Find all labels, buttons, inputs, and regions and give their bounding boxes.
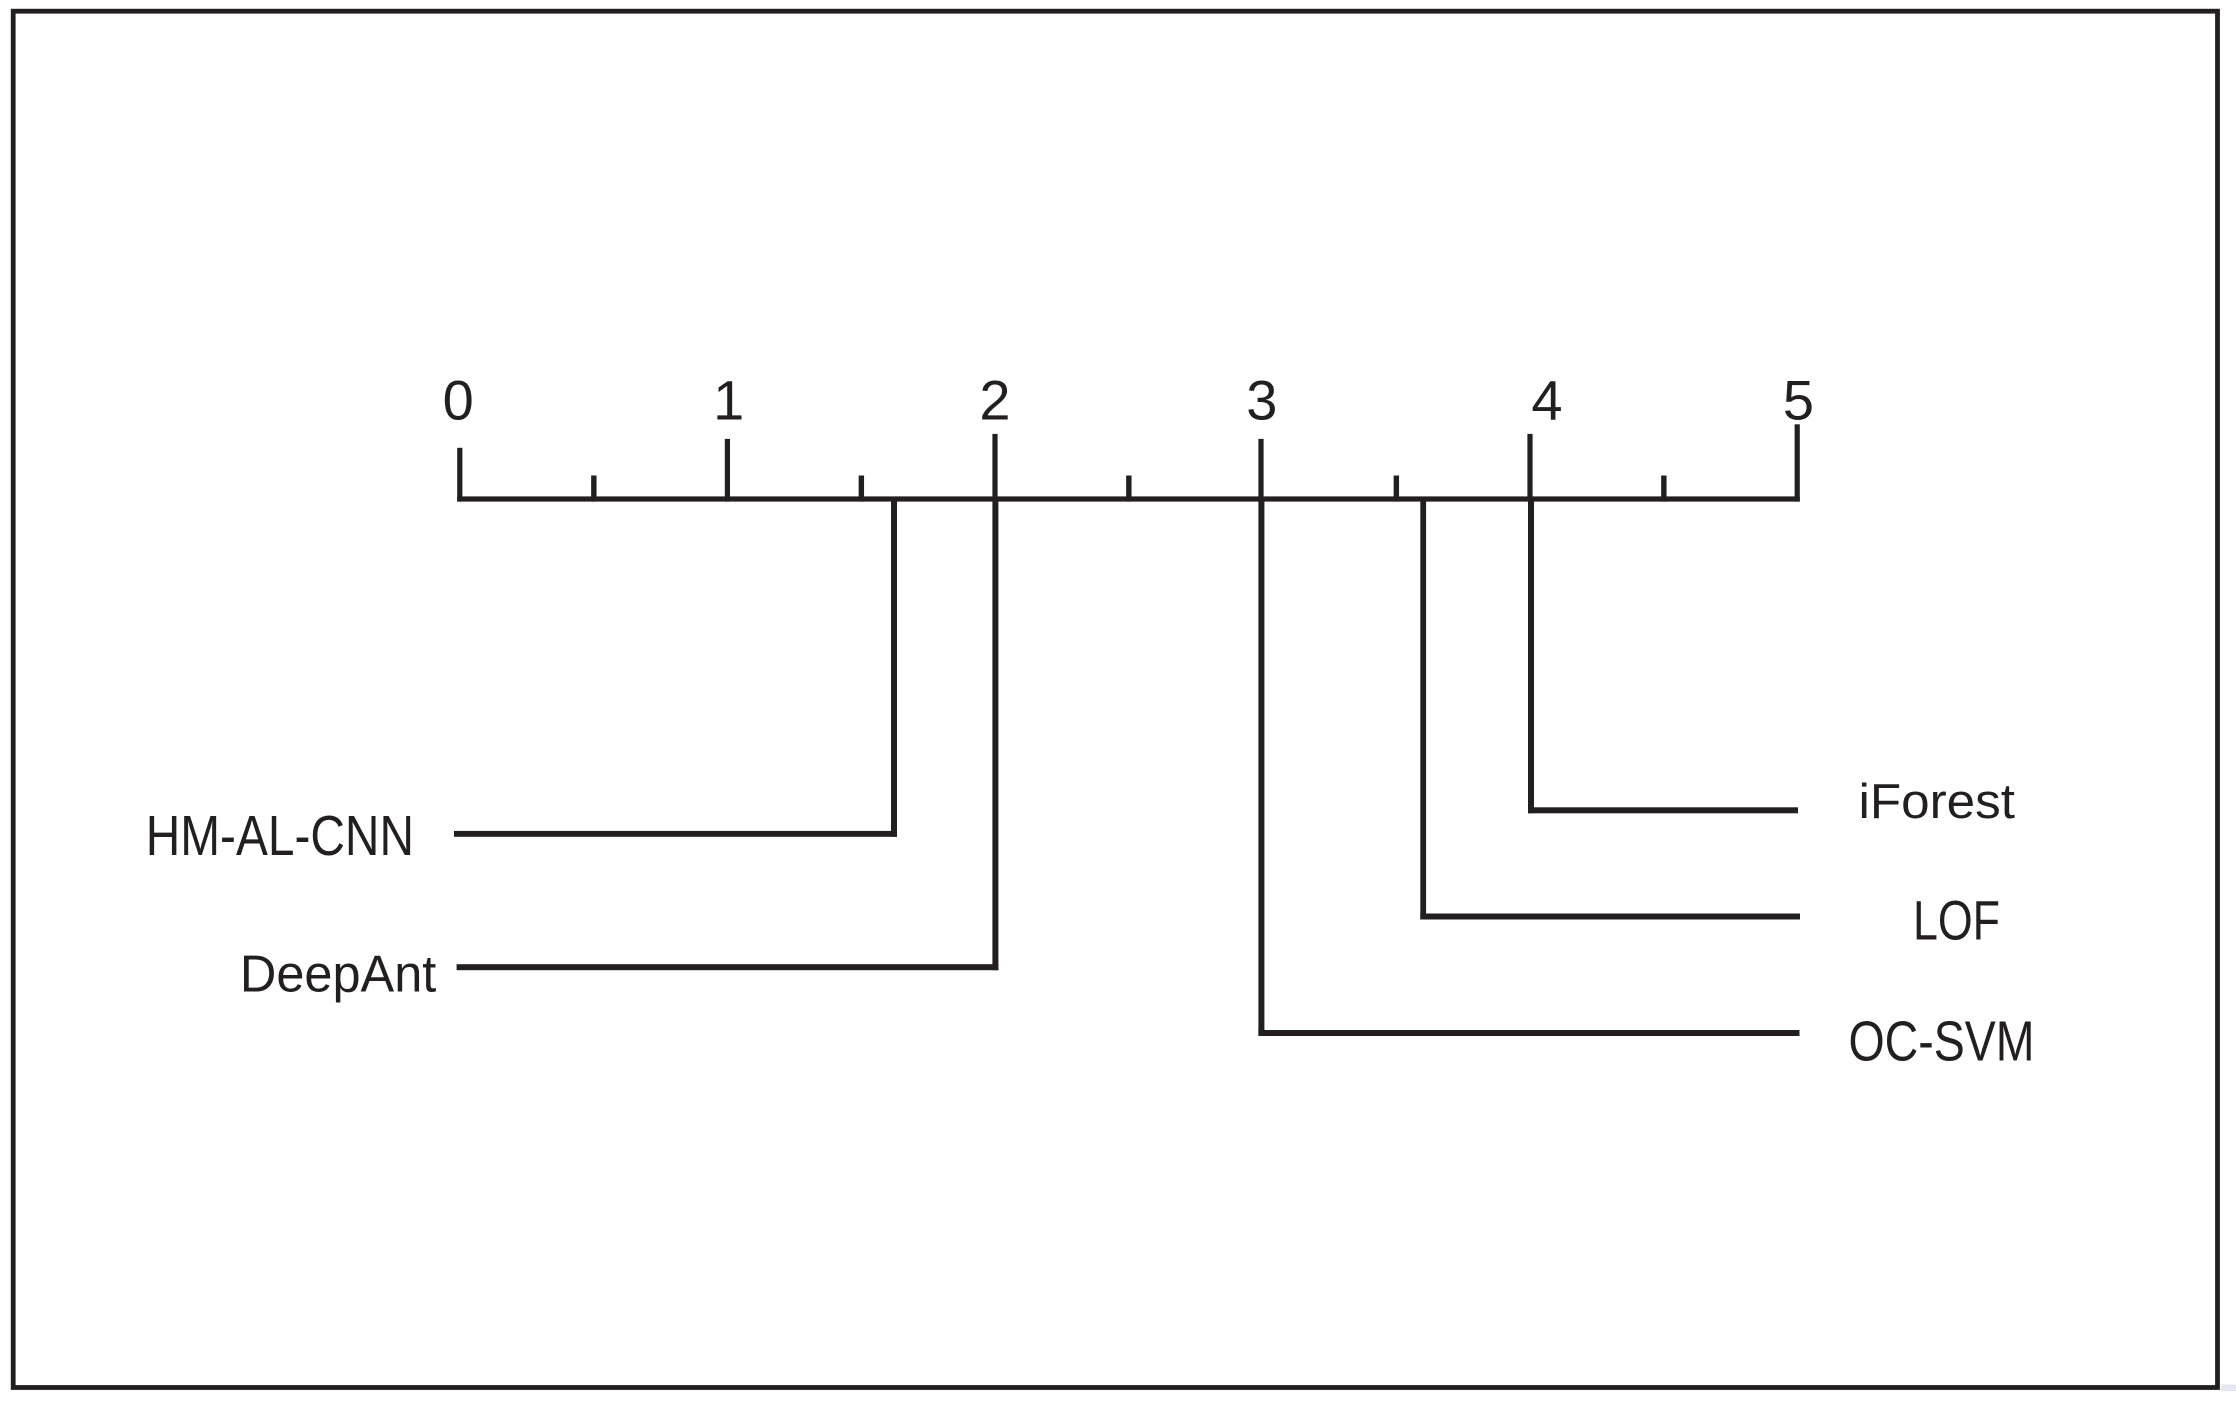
major tick 0 bbox=[457, 448, 462, 502]
DeepAnt drop line from rank 2.0 bbox=[992, 499, 998, 970]
svg-text:LOF: LOF bbox=[1913, 889, 2000, 952]
major tick 5 bbox=[1795, 424, 1800, 501]
LOF connector line bbox=[1420, 914, 1800, 920]
axis line bbox=[457, 496, 1800, 501]
minor tick 4.5 bbox=[1661, 476, 1666, 502]
minor tick 2.5 bbox=[1126, 476, 1131, 502]
svg-text:1: 1 bbox=[713, 368, 744, 431]
svg-text:iForest: iForest bbox=[1859, 774, 2016, 829]
minor tick 3.5 bbox=[1394, 476, 1399, 502]
svg-text:DeepAnt: DeepAnt bbox=[240, 945, 436, 1003]
HM-AL-CNN connector line bbox=[454, 831, 897, 837]
iForest connector line bbox=[1528, 807, 1798, 813]
LOF drop line from rank 3.6 bbox=[1420, 499, 1426, 920]
svg-text:3: 3 bbox=[1246, 368, 1277, 431]
DeepAnt connector line bbox=[457, 964, 999, 970]
major tick 4 bbox=[1527, 434, 1532, 502]
scanner light strip bottom-right bbox=[2221, 1385, 2236, 1392]
major tick 3 bbox=[1258, 439, 1263, 502]
major tick 2 bbox=[992, 434, 997, 502]
svg-text:HM-AL-CNN: HM-AL-CNN bbox=[146, 804, 414, 868]
OC-SVM drop line from rank 3.0 bbox=[1258, 499, 1264, 1036]
svg-text:4: 4 bbox=[1531, 368, 1562, 431]
iForest drop line from rank 4.0 bbox=[1528, 499, 1534, 813]
minor tick 0.5 bbox=[591, 476, 596, 502]
HM-AL-CNN drop line from rank 1.62 bbox=[891, 499, 897, 837]
svg-text:0: 0 bbox=[443, 368, 474, 431]
OC-SVM connector line bbox=[1258, 1030, 1799, 1036]
svg-text:2: 2 bbox=[979, 368, 1010, 431]
major tick 1 bbox=[725, 439, 730, 502]
svg-text:OC-SVM: OC-SVM bbox=[1849, 1011, 2035, 1074]
svg-text:5: 5 bbox=[1783, 368, 1814, 431]
minor tick 1.5 bbox=[859, 476, 864, 502]
